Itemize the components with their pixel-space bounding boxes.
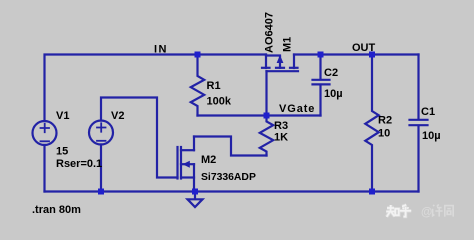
svg-text:10µ: 10µ xyxy=(422,130,441,142)
wire: V2 plus to M2 gate xyxy=(101,98,178,178)
svg-text:R1: R1 xyxy=(207,80,221,92)
voltage source V1 xyxy=(33,121,57,145)
wire: bottom rail xyxy=(45,190,419,192)
junction: R2 bottom rail xyxy=(369,189,375,195)
voltage source V2 xyxy=(89,121,113,145)
junction: OUT / R2 top xyxy=(369,52,375,58)
wire: V1 minus to bottom rail xyxy=(43,145,45,192)
svg-text:R2: R2 xyxy=(378,115,392,127)
wire: R3 bottom to M2 drain xyxy=(194,137,267,156)
svg-text:M2: M2 xyxy=(201,154,216,166)
svg-text:C2: C2 xyxy=(324,67,338,79)
svg-text:Rser=0.1: Rser=0.1 xyxy=(56,158,102,170)
transistor M1 (pmos AO6407) xyxy=(262,55,298,116)
capacitor C2 xyxy=(313,55,330,116)
resistor R1 xyxy=(191,55,204,116)
svg-text:OUT: OUT xyxy=(352,42,376,54)
svg-text:V2: V2 xyxy=(111,110,124,122)
resistor R3 xyxy=(260,116,273,156)
svg-text:VGate: VGate xyxy=(279,103,315,115)
svg-text:10µ: 10µ xyxy=(324,88,343,100)
wire: VGate net horizontal xyxy=(198,114,321,116)
svg-text:10: 10 xyxy=(378,128,390,140)
svg-text:.tran 80m: .tran 80m xyxy=(32,204,81,216)
capacitor C1 xyxy=(410,55,428,192)
svg-text:@: @ xyxy=(421,207,432,219)
watermark zhihu @xutong xyxy=(386,204,453,218)
resistor R2 xyxy=(365,55,378,192)
svg-text:C1: C1 xyxy=(421,106,435,118)
svg-text:V1: V1 xyxy=(56,110,69,122)
transistor M2 (nmos Si7336ADP) xyxy=(178,137,195,192)
svg-text:Si7336ADP: Si7336ADP xyxy=(201,172,256,183)
wire: V2 minus to bottom rail xyxy=(100,145,102,192)
svg-text:100k: 100k xyxy=(207,96,232,108)
wire: top rail from M1 drain to C1 corner xyxy=(294,53,419,55)
junction: IN / R1 top xyxy=(195,52,201,58)
junction: C2 top on rail xyxy=(318,52,324,58)
svg-text:1K: 1K xyxy=(274,132,288,144)
svg-text:15: 15 xyxy=(56,146,68,158)
junction: M2 source / ground xyxy=(192,189,198,195)
junction: V2 bottom rail xyxy=(98,189,104,195)
svg-text:IN: IN xyxy=(154,44,168,56)
svg-text:M1: M1 xyxy=(282,37,294,52)
svg-text:AO6407: AO6407 xyxy=(264,12,276,53)
svg-text:R3: R3 xyxy=(274,120,288,132)
ground xyxy=(188,192,203,207)
wire: V1 plus lead and top rail to M1 source xyxy=(45,55,267,122)
junction: VGate node xyxy=(264,113,270,119)
